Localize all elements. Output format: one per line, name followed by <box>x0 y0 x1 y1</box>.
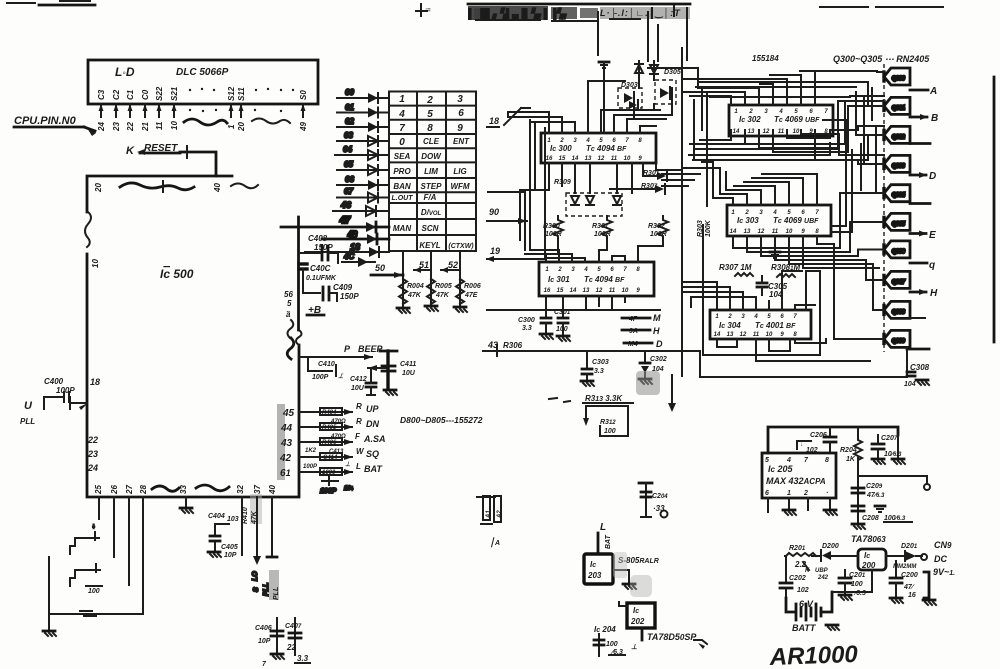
svg-text:C407: C407 <box>285 623 302 630</box>
svg-text:R201: R201 <box>789 545 806 552</box>
wire <box>823 120 846 226</box>
svg-text:202: 202 <box>630 617 645 626</box>
svg-text:R006: R006 <box>464 283 481 290</box>
resistor R204 1K <box>840 427 862 463</box>
svg-text:20: 20 <box>94 183 103 193</box>
wire <box>521 107 530 109</box>
S squiggle below <box>287 338 294 359</box>
wire <box>624 258 626 262</box>
svg-text:10U: 10U <box>402 370 416 377</box>
wire <box>864 96 880 164</box>
svg-text:4: 4 <box>585 138 590 144</box>
svg-text:S22: S22 <box>155 86 164 101</box>
svg-text:18: 18 <box>350 242 360 252</box>
IC200 output wire down <box>871 570 873 592</box>
wire <box>657 25 659 61</box>
svg-text:R313 3.3K: R313 3.3K <box>585 394 623 403</box>
wire <box>774 245 776 256</box>
svg-text:DN: DN <box>366 419 379 429</box>
resistor R805 47K <box>427 279 452 304</box>
svg-text:11: 11 <box>611 156 618 162</box>
svg-text:PLL: PLL <box>263 583 270 596</box>
wire <box>759 101 884 148</box>
small cap bracket below pin41 <box>320 477 354 495</box>
wire <box>715 130 745 144</box>
wire mesh around IC300 <box>508 80 682 240</box>
svg-text:13: 13 <box>744 229 751 235</box>
pin 44 row: R DN <box>280 417 379 440</box>
capacitor C208 <box>852 506 912 529</box>
top scan mark <box>416 4 431 16</box>
wire <box>734 186 775 205</box>
svg-text:7: 7 <box>399 123 405 134</box>
output line B <box>910 113 938 124</box>
svg-text:16: 16 <box>908 592 916 599</box>
svg-text:LIM: LIM <box>424 167 438 176</box>
svg-text:155184: 155184 <box>752 54 779 63</box>
svg-text:C0: C0 <box>141 89 150 100</box>
top-left scan artifact lines <box>7 1 95 5</box>
svg-text:Ic 204: Ic 204 <box>594 625 616 634</box>
wire <box>800 71 815 104</box>
wire <box>691 297 756 310</box>
R410 47K rotated label <box>242 494 262 525</box>
svg-text:27: 27 <box>125 485 134 495</box>
IC202 TA78D5OSP <box>619 602 707 651</box>
svg-text:C200: C200 <box>901 572 918 579</box>
wire <box>717 339 737 347</box>
output line D <box>910 171 936 182</box>
wire <box>662 179 694 181</box>
capacitor C204 0.33 <box>639 483 668 518</box>
wire <box>713 162 733 205</box>
svg-text:100R: 100R <box>594 231 611 238</box>
svg-text:Q303: Q303 <box>892 163 905 169</box>
wire <box>49 497 143 614</box>
svg-text:100P: 100P <box>320 488 337 495</box>
svg-text:TA78063: TA78063 <box>851 534 886 544</box>
vertical feeders from keypad area <box>508 108 545 258</box>
svg-text:Α1: Α1 <box>486 510 492 519</box>
svg-text:100P: 100P <box>312 374 329 381</box>
ground under R805 <box>425 306 438 311</box>
wire <box>871 88 873 120</box>
output stub after Q308 <box>910 317 925 319</box>
svg-text:LO: LO <box>252 571 259 581</box>
svg-text:F/A: F/A <box>424 193 437 202</box>
svg-text:1000: 1000 <box>322 470 336 476</box>
transistor Q302 <box>884 126 910 143</box>
diode row pin 66 <box>337 175 389 190</box>
svg-text:R309: R309 <box>554 179 571 186</box>
switch hook 2 <box>70 564 100 586</box>
svg-text:BEEP: BEEP <box>358 344 384 354</box>
wire <box>682 168 720 194</box>
svg-text:14: 14 <box>730 229 737 235</box>
svg-text:D200: D200 <box>822 543 839 550</box>
svg-text:R301: R301 <box>592 223 609 230</box>
svg-text:21: 21 <box>141 122 150 132</box>
svg-text:37: 37 <box>253 485 262 494</box>
svg-text:0: 0 <box>399 137 405 148</box>
svg-text:100P: 100P <box>303 464 318 470</box>
keypad key labels <box>398 94 464 148</box>
wire <box>561 163 563 186</box>
svg-text:H: H <box>930 288 938 299</box>
wire <box>787 126 884 138</box>
wire <box>876 128 884 193</box>
svg-text:1: 1 <box>399 94 405 105</box>
svg-text:C1: C1 <box>126 89 135 100</box>
pin 18 wire right of keypad <box>487 108 521 127</box>
svg-text:R410: R410 <box>242 507 249 524</box>
svg-text:11: 11 <box>753 332 760 338</box>
svg-text:AR1000: AR1000 <box>768 641 859 669</box>
wire <box>795 339 826 343</box>
svg-text:Ic 303: Ic 303 <box>737 216 759 225</box>
label R303 100K rotated <box>697 219 712 237</box>
svg-text:MAN: MAN <box>393 224 411 233</box>
wire <box>546 240 558 262</box>
pin 42 row: W SQ <box>279 447 379 468</box>
wire <box>686 8 688 60</box>
shaded PLL label <box>269 570 280 600</box>
diode arrow D306 <box>643 170 667 181</box>
svg-text:10: 10 <box>766 332 773 338</box>
svg-text:4: 4 <box>398 109 405 120</box>
svg-text:100∕6.3: 100∕6.3 <box>884 515 906 522</box>
svg-text:10: 10 <box>622 288 629 294</box>
long wire under IC301 <box>487 309 660 311</box>
transistor Q309 <box>884 330 910 347</box>
+B label <box>307 305 324 316</box>
svg-text:8: 8 <box>825 457 829 464</box>
output line (unlabeled) <box>910 202 930 205</box>
svg-text:PRO: PRO <box>393 167 411 176</box>
svg-text:25: 25 <box>94 485 103 495</box>
svg-text:Ic: Ic <box>864 551 870 560</box>
gray smudge at IC202 <box>630 575 652 597</box>
svg-text:5: 5 <box>765 457 769 464</box>
wire <box>844 101 846 144</box>
wire <box>817 236 884 339</box>
svg-text:49: 49 <box>299 122 308 132</box>
transistor Q303 <box>884 155 910 172</box>
svg-text:Ic 300: Ic 300 <box>550 144 572 153</box>
svg-text:BAT: BAT <box>605 534 612 549</box>
svg-text:Q300~Q305 ⋯ RN2405: Q300~Q305 ⋯ RN2405 <box>833 54 930 64</box>
IC500 right edge upper pin wire / C408 150P <box>299 234 338 263</box>
wire <box>701 87 703 130</box>
C301 100 <box>554 296 571 341</box>
wire <box>858 160 884 164</box>
wire <box>534 124 536 190</box>
svg-text:2: 2 <box>559 138 564 144</box>
svg-text:14: 14 <box>714 332 721 338</box>
CN9 terminal <box>921 540 955 577</box>
svg-text:WFM: WFM <box>450 182 469 191</box>
svg-text:R406: R406 <box>322 440 337 446</box>
wire <box>694 100 838 160</box>
svg-text:D201: D201 <box>901 543 918 550</box>
diode row pin 65 <box>337 160 389 175</box>
svg-text:32: 32 <box>236 485 245 494</box>
svg-text:1: 1 <box>227 124 236 129</box>
tick on reset wire <box>186 146 188 158</box>
wire <box>525 254 572 262</box>
transistor Q306 <box>884 241 910 258</box>
svg-text:65: 65 <box>344 160 353 169</box>
svg-text:47E: 47E <box>464 292 478 299</box>
wire mesh around IC303 and IC302->IC303 columns <box>682 120 884 339</box>
svg-text:63: 63 <box>344 131 353 140</box>
svg-text:Tc 4001 BF: Tc 4001 BF <box>755 321 796 330</box>
svg-text:10∕6.3: 10∕6.3 <box>884 451 902 458</box>
diode pair D300 pointing up <box>635 61 658 80</box>
diode row pin 64 <box>335 145 389 160</box>
resistor R302 100R <box>648 216 668 240</box>
extra bus lines under IC302 <box>662 82 884 193</box>
svg-text:6: 6 <box>765 490 769 497</box>
diode row pin 67 <box>337 187 389 203</box>
capacitor C412 10U <box>350 368 376 395</box>
svg-text:K: K <box>126 145 135 157</box>
svg-text:47K: 47K <box>435 292 450 299</box>
svg-text:10: 10 <box>624 156 631 162</box>
svg-text:C411: C411 <box>400 361 416 368</box>
svg-text:Ic 500: Ic 500 <box>160 267 194 281</box>
svg-text:10P: 10P <box>224 552 237 559</box>
wire <box>850 95 884 97</box>
svg-text:47K: 47K <box>407 292 422 299</box>
wire <box>700 347 907 377</box>
wire <box>529 120 531 250</box>
capacitor C206 <box>797 427 836 454</box>
output line q <box>910 260 935 271</box>
capacitor C400 100P <box>44 377 88 410</box>
svg-text:52: 52 <box>448 260 458 270</box>
dash marks above R313 <box>549 398 570 402</box>
svg-text:D305: D305 <box>664 69 681 76</box>
svg-text:13: 13 <box>583 288 590 294</box>
IC500 bottom wires: pins 25-28 <box>49 497 143 631</box>
svg-text:42: 42 <box>279 453 292 464</box>
capacitor C407 <box>285 618 310 663</box>
svg-text:5: 5 <box>287 299 292 308</box>
svg-text:Q307: Q307 <box>892 279 906 285</box>
wire <box>656 163 682 170</box>
keypad matrix grid <box>389 92 476 252</box>
svg-text:11: 11 <box>155 121 164 130</box>
svg-text:22: 22 <box>87 435 98 445</box>
svg-text:22: 22 <box>126 122 135 132</box>
svg-text:C2: C2 <box>112 89 121 100</box>
svg-text:↓: ↓ <box>92 524 95 530</box>
wire <box>662 173 700 175</box>
svg-text:A: A <box>929 86 937 97</box>
svg-text:4: 4 <box>583 267 588 273</box>
svg-text:100K: 100K <box>705 219 712 237</box>
svg-text:Q304: Q304 <box>892 193 905 199</box>
svg-text:Tc 4069 UBF: Tc 4069 UBF <box>773 216 819 225</box>
right border line <box>993 77 996 342</box>
svg-text:104: 104 <box>769 290 783 299</box>
svg-text:100: 100 <box>851 581 863 588</box>
MAX432 power section top wire <box>768 427 898 453</box>
transistor Q301 <box>884 97 910 114</box>
svg-text:44: 44 <box>280 423 293 434</box>
wire <box>545 258 585 262</box>
wire <box>702 161 713 163</box>
dashed diode box D302 <box>618 88 642 108</box>
svg-text:CLE: CLE <box>423 137 440 146</box>
diode D200 <box>815 543 839 581</box>
wire <box>769 339 790 351</box>
diode row pin 62 <box>337 117 389 132</box>
svg-text:2: 2 <box>803 490 808 497</box>
capacitor C209 <box>852 483 885 499</box>
wire <box>647 12 649 61</box>
svg-text:R004: R004 <box>407 283 424 290</box>
svg-text:C209: C209 <box>866 483 883 490</box>
svg-text:Q301: Q301 <box>892 105 905 111</box>
transistor array Q300..Q309 <box>884 64 994 352</box>
svg-text:M: M <box>653 313 661 323</box>
wire <box>815 130 884 160</box>
wire <box>530 122 575 133</box>
wire <box>860 144 862 190</box>
C404 103 cap network <box>208 497 242 559</box>
svg-text:STEP: STEP <box>421 182 443 191</box>
C308 capacitor bottom right <box>904 363 930 388</box>
svg-text:64: 64 <box>343 145 352 154</box>
CN9 bracket <box>923 572 936 605</box>
svg-text:R005: R005 <box>435 283 452 290</box>
svg-text:6: 6 <box>458 108 464 119</box>
svg-text:16: 16 <box>546 156 553 162</box>
svg-text:C400: C400 <box>44 377 64 386</box>
CPU pin numbers under LCD <box>97 121 308 132</box>
svg-text:DC: DC <box>934 554 947 564</box>
svg-text:12: 12 <box>740 332 747 338</box>
output line H <box>910 288 938 299</box>
svg-text:11: 11 <box>772 229 779 235</box>
LCD pin stubs with arrows <box>99 104 306 117</box>
svg-text:SCN: SCN <box>422 224 439 233</box>
svg-text:Α2: Α2 <box>497 510 503 519</box>
wire <box>726 190 761 205</box>
svg-text:KEYL: KEYL <box>419 241 440 250</box>
ground under R804 <box>397 308 410 313</box>
wires below resistors into IC301 top <box>525 240 663 262</box>
svg-text:·: · <box>826 490 828 497</box>
wire <box>733 193 884 248</box>
wire <box>507 112 509 117</box>
svg-text:H: H <box>653 326 660 336</box>
svg-text:46: 46 <box>340 200 352 210</box>
top-right dashed line <box>820 6 943 8</box>
svg-text:Q300: Q300 <box>892 76 905 82</box>
wire <box>747 222 884 252</box>
diode row pin 63 <box>337 131 389 146</box>
svg-text:L.OUT: L.OUT <box>392 195 414 202</box>
diode row pin 48 <box>322 230 389 244</box>
wire <box>638 80 640 88</box>
wire <box>682 292 743 310</box>
svg-text:L·├.l:│∟.│‿│:T: L·├.l:│∟.│‿│:T <box>600 7 681 19</box>
wire <box>690 96 731 104</box>
R313 3.3K ladder <box>583 394 633 436</box>
capacitor C411 10U <box>380 351 416 395</box>
squiggles between bottom pins <box>152 486 179 491</box>
IC205 bottom pin wires and grounds <box>768 498 830 512</box>
svg-text:47: 47 <box>339 215 351 225</box>
node labels 56 5 B <box>284 290 293 338</box>
svg-text:67: 67 <box>344 187 353 196</box>
pin 19 wire <box>486 246 545 262</box>
svg-text:40: 40 <box>213 183 222 193</box>
svg-text:Ic: Ic <box>633 606 639 615</box>
svg-text:14: 14 <box>733 129 740 135</box>
svg-text:102: 102 <box>797 587 809 594</box>
svg-text:Tc 4069 UBF: Tc 4069 UBF <box>774 115 820 124</box>
svg-text:R: R <box>356 417 362 426</box>
svg-text:16: 16 <box>544 288 551 294</box>
IC304 TC4001BF <box>710 310 811 339</box>
svg-text:14: 14 <box>572 156 579 162</box>
wire <box>773 106 884 152</box>
capacitor C409 150P <box>303 277 359 301</box>
svg-text:2: 2 <box>727 314 732 320</box>
svg-text:CN9: CN9 <box>934 540 952 550</box>
wire from IC301 pins down <box>586 296 625 310</box>
wire <box>508 117 562 133</box>
resistor R201 2.2k <box>786 545 816 574</box>
diode D301 <box>629 100 638 109</box>
wire <box>725 172 727 190</box>
svg-text:Ic 301: Ic 301 <box>548 275 570 284</box>
svg-text:15: 15 <box>557 288 564 294</box>
pin 90 wire <box>487 207 527 224</box>
wire R201-D200-IC200 <box>785 555 906 557</box>
svg-text:43: 43 <box>280 438 293 449</box>
tick marks near switches <box>80 611 96 616</box>
svg-text:▌▒█▌▖▚▌▄▐▌▚▖▌▐▚▖: ▌▒█▌▖▚▌▄▐▌▚▖▌▐▚▖ <box>468 7 569 21</box>
svg-text:33: 33 <box>179 485 188 494</box>
dashed box with diodes D308 D309 <box>566 193 622 216</box>
svg-text:14: 14 <box>570 288 577 294</box>
pin 43/R306 long wire <box>483 340 700 356</box>
wire <box>690 143 845 145</box>
svg-text:8: 8 <box>427 123 433 134</box>
wire <box>752 178 803 205</box>
squiggle between pin numbers <box>184 119 227 125</box>
wire <box>640 126 656 133</box>
svg-text:C410: C410 <box>318 361 335 368</box>
svg-text:40: 40 <box>268 485 277 495</box>
wire <box>662 185 688 187</box>
svg-text:BATT: BATT <box>792 623 817 633</box>
wire <box>643 163 656 176</box>
svg-text:62: 62 <box>345 117 354 126</box>
output line (unlabeled) <box>910 142 930 145</box>
svg-text:⊥: ⊥ <box>345 461 350 468</box>
diode arrow D307 <box>610 183 665 194</box>
wire <box>775 236 884 280</box>
capacitor C201 100/6.3 <box>839 570 866 600</box>
svg-text:BAT: BAT <box>364 464 383 474</box>
wire <box>789 236 884 310</box>
